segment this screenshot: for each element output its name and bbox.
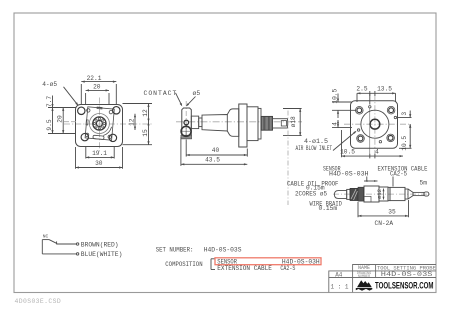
ca2-5 leader xyxy=(392,177,394,187)
dim 12 inner xyxy=(134,114,136,130)
cable assembly centerline xyxy=(333,193,430,195)
svg-text:ø5: ø5 xyxy=(193,90,201,97)
air hole left xyxy=(357,129,359,131)
svg-text:NUMBER: NUMBER xyxy=(358,275,370,279)
svg-text:H4D-0S-03S: H4D-0S-03S xyxy=(204,247,242,254)
svg-text:H4D-0S-03H: H4D-0S-03H xyxy=(329,171,369,178)
collar xyxy=(191,116,198,129)
projection dashed line xyxy=(287,111,289,206)
contact pivot circle xyxy=(184,120,189,125)
svg-text:SET NUMBER:: SET NUMBER: xyxy=(156,247,194,254)
dim 35 ext xyxy=(357,202,359,217)
dim 40 ext xyxy=(185,140,187,157)
terminal blue xyxy=(76,253,78,255)
title block row line 2 xyxy=(329,277,436,279)
svg-text:2CORES ø5: 2CORES ø5 xyxy=(295,190,327,197)
svg-text:NC: NC xyxy=(43,234,49,240)
svg-text:4-ø5: 4-ø5 xyxy=(42,81,57,88)
rear flange plate xyxy=(351,101,398,148)
svg-text:3: 3 xyxy=(401,112,408,116)
svg-text:13.5: 13.5 xyxy=(377,86,392,93)
svg-text:ø12: ø12 xyxy=(376,189,383,199)
svg-text:ø18: ø18 xyxy=(290,116,297,127)
dim 10.5 left xyxy=(337,94,339,103)
dim 22.1 extension lines xyxy=(80,84,82,104)
svg-text:5m: 5m xyxy=(420,179,428,186)
dim 4 left xyxy=(337,120,339,128)
left ext lines rear xyxy=(332,101,352,103)
svg-text:1 : 1: 1 : 1 xyxy=(330,284,348,291)
dim 30 xyxy=(76,167,123,169)
dim 7.7 xyxy=(52,96,54,108)
mounting hole bottom-right xyxy=(109,134,116,141)
svg-text:NAME: NAME xyxy=(358,265,370,271)
braid hatch xyxy=(351,189,356,199)
contact leader xyxy=(176,93,182,106)
rear hole top-left xyxy=(356,107,364,115)
dim 43.5 xyxy=(181,163,247,165)
dim 2.5/13.5 line xyxy=(357,92,396,94)
mounting hole top-right xyxy=(113,107,120,114)
rear hole bottom-right xyxy=(387,134,395,142)
switch blade xyxy=(49,240,57,244)
svg-text:40: 40 xyxy=(212,147,220,154)
dim 12 right xyxy=(148,104,150,123)
switch fixed contact xyxy=(42,239,49,241)
svg-text:10.5: 10.5 xyxy=(331,88,338,103)
dim 10.5 right xyxy=(409,124,411,148)
front view flange plate xyxy=(76,105,123,147)
svg-text:12: 12 xyxy=(128,118,135,126)
top dim ext xyxy=(356,93,358,102)
svg-text:4D0S03E.CSD: 4D0S03E.CSD xyxy=(15,298,62,305)
svg-text:12: 12 xyxy=(142,109,149,117)
front view vertical centerline xyxy=(98,98,100,154)
dim 35 xyxy=(358,215,409,217)
body cylinder xyxy=(247,107,258,141)
thread section xyxy=(261,116,273,130)
dim 9.5 xyxy=(52,108,54,134)
svg-text:4: 4 xyxy=(375,149,379,156)
rear view vertical centerline xyxy=(374,94,376,158)
center ring bold xyxy=(93,117,106,130)
dim 20 left xyxy=(62,108,64,134)
center outer circle xyxy=(89,114,109,134)
center bore xyxy=(96,121,102,127)
contact vertical centerline xyxy=(185,101,187,141)
sensor leader xyxy=(366,177,368,182)
sensor cable xyxy=(334,191,346,199)
dim 22.1 xyxy=(81,81,116,83)
svg-text:AIR BLOW INLET: AIR BLOW INLET xyxy=(296,145,333,152)
red highlight box xyxy=(215,258,321,265)
rear center outer circle xyxy=(361,110,389,138)
out cable xyxy=(413,192,424,195)
dim 43.5 ext xyxy=(180,137,182,166)
bottom ext rear xyxy=(341,130,343,157)
title block col line xyxy=(375,265,377,278)
screw bottom-left xyxy=(85,133,88,136)
screw top-left xyxy=(87,109,90,112)
cable collar xyxy=(347,189,350,199)
bottom dim line rear xyxy=(342,155,404,157)
svg-text:15: 15 xyxy=(142,129,149,137)
air hole bottom xyxy=(379,141,381,143)
connector housing xyxy=(364,186,379,202)
title block outline xyxy=(329,265,436,293)
svg-text:A4: A4 xyxy=(335,272,343,279)
bell body xyxy=(227,109,239,136)
terminal brown xyxy=(76,243,78,245)
wire blue xyxy=(42,253,76,255)
svg-text:4: 4 xyxy=(331,122,338,126)
air blow leader xyxy=(333,132,356,151)
svg-text:19.1: 19.1 xyxy=(92,150,107,157)
svg-text:2.5: 2.5 xyxy=(356,86,367,93)
front view horizontal centerline xyxy=(64,123,153,125)
svg-text:CN-2A: CN-2A xyxy=(375,220,394,227)
svg-text:10.5: 10.5 xyxy=(340,148,355,155)
air hole right xyxy=(394,116,396,118)
front view inner square body xyxy=(85,106,115,140)
screw bottom-right xyxy=(108,135,111,138)
switch throw tick xyxy=(56,241,58,244)
rear hole top-right xyxy=(387,106,395,114)
svg-text:H4D-0S-03S: H4D-0S-03S xyxy=(381,271,433,278)
svg-text:22.1: 22.1 xyxy=(87,75,102,82)
rear center bore xyxy=(370,119,380,129)
svg-text:BROWN(RED): BROWN(RED) xyxy=(81,241,119,248)
screw top-right xyxy=(109,110,112,113)
connector ring xyxy=(388,187,390,200)
connector step xyxy=(405,189,408,199)
wire braid block xyxy=(350,188,358,200)
svg-text:BLUE(WHITE): BLUE(WHITE) xyxy=(81,251,123,258)
dim phi12 inside xyxy=(383,189,385,200)
svg-text:30: 30 xyxy=(95,160,103,167)
shaft taper xyxy=(202,115,227,132)
wire brown xyxy=(57,243,77,245)
dim 20 top ext xyxy=(85,93,87,104)
svg-text:9.5: 9.5 xyxy=(46,119,53,130)
dim 20 top xyxy=(86,89,109,91)
svg-text:CA2-S: CA2-S xyxy=(280,265,295,272)
rear view horizontal centerline xyxy=(344,123,409,125)
air hole top xyxy=(369,106,371,108)
svg-text:35: 35 xyxy=(388,208,396,215)
contact ball phi5 xyxy=(181,126,191,136)
svg-text:43.5: 43.5 xyxy=(205,157,220,164)
mounting hole top-left xyxy=(78,107,85,114)
toolsensor logo mark xyxy=(357,280,372,287)
right ext lines xyxy=(123,103,153,105)
svg-text:COMPOSITION: COMPOSITION xyxy=(165,261,202,268)
contact holder body xyxy=(182,108,192,139)
mounting hole bottom-left xyxy=(81,133,88,140)
side view axis centerline xyxy=(176,121,302,123)
rear hole bottom-left xyxy=(357,135,365,143)
wire left vertical xyxy=(41,240,43,254)
dim 19.1 xyxy=(86,156,114,158)
dim 40 xyxy=(186,154,247,156)
dim 30 ext xyxy=(75,147,77,169)
body ring xyxy=(258,108,261,139)
dim 15 right xyxy=(148,122,150,145)
right ext rear xyxy=(397,117,412,119)
left ext lines xyxy=(48,107,76,109)
svg-text:20: 20 xyxy=(93,84,101,91)
cable end cap xyxy=(424,192,429,196)
svg-text:7.7: 7.7 xyxy=(46,96,53,107)
svg-text:TOOLSENSOR.COM: TOOLSENSOR.COM xyxy=(375,281,434,291)
dim phi18 xyxy=(299,109,301,136)
svg-text:10.5: 10.5 xyxy=(401,136,408,151)
dim 3 right xyxy=(409,111,411,118)
housing notch xyxy=(364,196,371,202)
composition bracket xyxy=(210,259,212,270)
contact holder hatch base xyxy=(181,135,192,139)
groove xyxy=(199,118,202,127)
connector nose xyxy=(408,189,413,199)
end slot xyxy=(281,121,286,126)
svg-text:20: 20 xyxy=(57,115,64,123)
svg-text:CONTACT: CONTACT xyxy=(144,90,178,97)
dim phi18 ext xyxy=(283,108,302,110)
connector barrel xyxy=(390,187,405,200)
svg-text:EXTENSION CABLE: EXTENSION CABLE xyxy=(217,265,272,272)
svg-text:0.15m: 0.15m xyxy=(319,205,338,212)
partial arc lower-right xyxy=(103,127,111,136)
flange side xyxy=(239,104,247,147)
bearing balls xyxy=(94,118,106,130)
clamp block xyxy=(358,187,363,201)
end shaft xyxy=(273,119,288,128)
phi5 leader xyxy=(187,97,196,106)
dim 19.1 ext xyxy=(85,147,87,159)
title block row line 1 xyxy=(353,270,436,272)
connector mid xyxy=(379,187,388,201)
